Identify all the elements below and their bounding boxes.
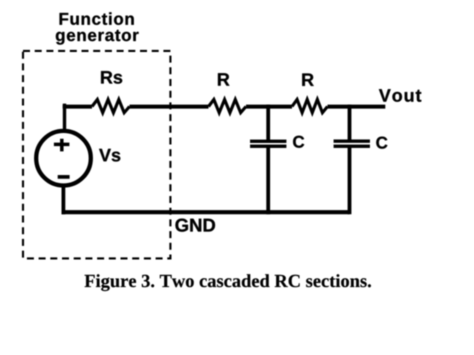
resistor R1 — [209, 100, 247, 113]
wire R2-to-Vout — [328, 105, 386, 109]
capacitor C2 branch upper wire — [348, 105, 352, 141]
wire bottom GND rail — [62, 210, 350, 214]
minus sign — [58, 175, 70, 179]
capacitor C2 branch lower wire — [348, 147, 352, 214]
capacitor C1 branch lower wire — [266, 147, 270, 214]
label C2 — [376, 137, 387, 149]
resistor Rs — [92, 100, 130, 113]
voltage source Vs circle — [36, 131, 91, 186]
label Rs — [101, 71, 122, 84]
label C1 — [293, 136, 304, 148]
caption Figure 3 — [85, 274, 371, 291]
resistor R2 — [292, 100, 328, 113]
label GND — [175, 219, 215, 232]
label Vs — [99, 149, 120, 162]
plus sign — [54, 139, 70, 152]
wire top segment source-to-Rs — [63, 105, 92, 109]
wire riser source top — [63, 104, 66, 132]
label R2 — [302, 74, 313, 86]
capacitor C1 branch upper wire — [266, 105, 270, 141]
capacitor C1 plates — [250, 140, 286, 143]
wire R1-to-R2 with node at C1 — [246, 105, 292, 109]
label Function generator — [60, 12, 134, 24]
label Vout — [379, 89, 421, 102]
wire source bottom riser — [62, 185, 66, 214]
capacitor C2 plates — [334, 140, 370, 143]
wire Rs-to-R1 — [130, 105, 209, 109]
label R1 — [218, 73, 229, 85]
function generator dashed box — [23, 51, 170, 259]
